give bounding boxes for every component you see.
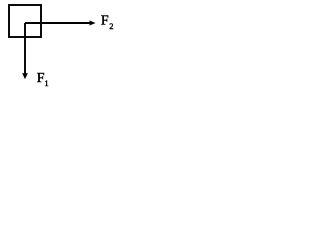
wire: force line F1 vertical (24, 23, 26, 74)
arrowhead F2 (89, 20, 95, 25)
svg-text:F: F (101, 13, 109, 28)
box (square block) (9, 5, 41, 37)
svg-text:1: 1 (44, 78, 48, 88)
arrowhead F1 (22, 73, 28, 79)
wire: force line F2 horizontal (25, 22, 90, 24)
svg-text:2: 2 (109, 21, 113, 31)
